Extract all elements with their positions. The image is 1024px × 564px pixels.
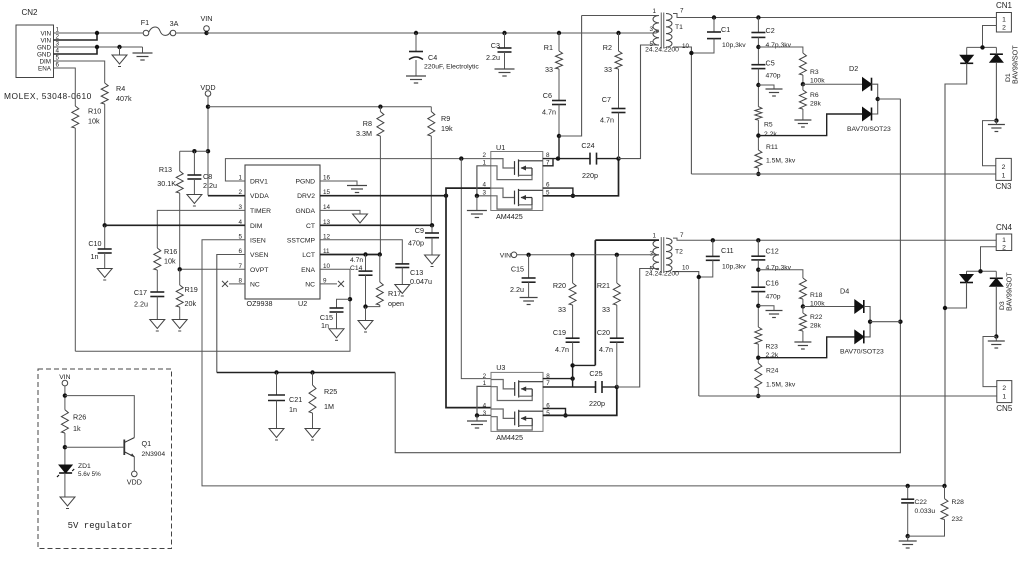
resistor R24 1.5M,3kv bbox=[755, 363, 762, 388]
svg-text:4.7p,3kv: 4.7p,3kv bbox=[766, 265, 792, 272]
svg-text:10k: 10k bbox=[164, 257, 176, 266]
svg-text:1.5M, 3kv: 1.5M, 3kv bbox=[766, 382, 796, 389]
svg-text:2: 2 bbox=[482, 152, 486, 159]
node VIN (second input terminal) bbox=[511, 252, 517, 258]
capacitor C11 10p,3kv bbox=[711, 238, 715, 242]
svg-text:Q1: Q1 bbox=[142, 439, 152, 448]
resistor R1 33 bbox=[557, 31, 561, 35]
svg-text:C20: C20 bbox=[597, 328, 610, 337]
wire VSEN pin6 (to voltage feedback) bbox=[217, 255, 245, 373]
svg-text:AM4425: AM4425 bbox=[496, 433, 523, 442]
svg-text:F1: F1 bbox=[141, 18, 149, 27]
wire CN2 pin3/pin4 GND bbox=[54, 46, 143, 48]
svg-text:33: 33 bbox=[604, 65, 612, 74]
svg-text:10k: 10k bbox=[88, 117, 100, 126]
svg-text:1n: 1n bbox=[91, 252, 99, 261]
ground (triangle) CN2 GND bbox=[119, 47, 121, 55]
svg-text:20k: 20k bbox=[185, 299, 197, 308]
wire DRV1 net (pin1 to U1 pin2 / U3 pin2) bbox=[225, 159, 490, 181]
svg-text:10: 10 bbox=[323, 263, 331, 270]
svg-text:R9: R9 bbox=[441, 114, 450, 123]
svg-text:220p: 220p bbox=[582, 171, 598, 180]
svg-text:3: 3 bbox=[238, 204, 242, 211]
transformer T1 24.24.2200 bbox=[582, 8, 997, 175]
connector CN3 bbox=[983, 121, 997, 166]
capacitor C5 470p bbox=[751, 64, 765, 66]
wire U1 drain pins 6/5 jog bbox=[543, 188, 573, 196]
svg-text:R22: R22 bbox=[810, 314, 823, 321]
svg-text:1: 1 bbox=[1002, 237, 1006, 244]
svg-text:16: 16 bbox=[323, 175, 331, 182]
svg-text:ISEN: ISEN bbox=[250, 237, 266, 244]
zener diode ZD1 5.6v 5% bbox=[59, 465, 72, 473]
svg-text:3: 3 bbox=[56, 41, 60, 48]
svg-text:C10: C10 bbox=[88, 239, 101, 248]
svg-text:DRV1: DRV1 bbox=[250, 179, 268, 186]
svg-text:GND: GND bbox=[37, 45, 51, 52]
wire ENA pin10 bbox=[75, 269, 350, 351]
wire VIN rail bbox=[207, 32, 660, 34]
svg-text:33: 33 bbox=[558, 305, 566, 314]
svg-text:R21: R21 bbox=[597, 281, 610, 290]
connector CN2 bbox=[4, 8, 92, 101]
svg-text:1: 1 bbox=[56, 27, 60, 34]
wire CT pin13 + capacitor C9 470p bbox=[320, 224, 432, 226]
svg-text:0.047u: 0.047u bbox=[410, 277, 432, 286]
svg-text:30.1K: 30.1K bbox=[157, 179, 176, 188]
svg-text:R28: R28 bbox=[952, 499, 965, 506]
svg-text:2: 2 bbox=[1002, 164, 1006, 171]
svg-text:CN3: CN3 bbox=[995, 182, 1012, 191]
capacitor C21 1n bbox=[276, 373, 278, 396]
svg-text:R17: R17 bbox=[388, 289, 401, 298]
svg-text:BAV70/SOT23: BAV70/SOT23 bbox=[847, 126, 891, 133]
resistor R10 10k bbox=[72, 106, 79, 128]
svg-text:14: 14 bbox=[323, 204, 331, 211]
ground (earth) C22/R28 bbox=[907, 536, 909, 541]
wire U3 drain pins 6/5 jog bbox=[543, 409, 566, 416]
wire SSTCMP pin12 + capacitor C13 0.047u bbox=[320, 240, 402, 264]
svg-text:R13: R13 bbox=[159, 165, 172, 174]
resistor R25 1M bbox=[312, 373, 314, 386]
capacitor C4 220uF electrolytic bbox=[414, 31, 418, 35]
svg-text:ZD1: ZD1 bbox=[78, 463, 91, 470]
capacitor C3 2.2u bbox=[502, 31, 506, 35]
wire ISEN pin5 (to current sense) bbox=[202, 240, 945, 486]
svg-text:open: open bbox=[388, 299, 404, 308]
svg-text:1: 1 bbox=[1002, 173, 1006, 180]
svg-text:ENA: ENA bbox=[38, 66, 52, 73]
node VIN (regulator input) bbox=[62, 380, 68, 386]
svg-text:470p: 470p bbox=[408, 239, 424, 248]
svg-text:220uF, Electrolytic: 220uF, Electrolytic bbox=[424, 64, 479, 71]
svg-text:R1: R1 bbox=[544, 43, 553, 52]
svg-text:7: 7 bbox=[238, 263, 242, 270]
svg-text:R5: R5 bbox=[764, 122, 773, 129]
wire C24 node to T1 pin5 riser bbox=[619, 45, 658, 159]
svg-text:CT: CT bbox=[306, 223, 315, 230]
svg-text:C8: C8 bbox=[203, 172, 212, 181]
svg-text:AM4425: AM4425 bbox=[496, 212, 523, 221]
svg-text:GNDA: GNDA bbox=[295, 208, 315, 215]
capacitor C24 220p bbox=[589, 153, 591, 165]
pin 9 NC stub bbox=[320, 283, 337, 285]
svg-text:4.7n: 4.7n bbox=[542, 108, 556, 117]
svg-text:3: 3 bbox=[483, 410, 487, 417]
svg-text:DRV2: DRV2 bbox=[297, 193, 315, 200]
svg-text:2.2k: 2.2k bbox=[764, 131, 777, 138]
wire DIM pin4 bbox=[105, 224, 245, 226]
svg-text:1M: 1M bbox=[324, 402, 334, 411]
op-amp U1 ... actually controller IC U2 OZ9938 bbox=[238, 165, 330, 308]
svg-text:4.7p,3kv: 4.7p,3kv bbox=[766, 42, 792, 49]
svg-text:CN5: CN5 bbox=[996, 404, 1013, 413]
svg-text:5V regulator: 5V regulator bbox=[68, 521, 133, 531]
resistor R6 28k bbox=[802, 84, 804, 90]
resistor R11 1.5M,3kv bbox=[755, 150, 762, 168]
svg-text:NC: NC bbox=[250, 281, 260, 288]
svg-text:R10: R10 bbox=[88, 107, 101, 116]
diode D3 BAV99/SOT bbox=[943, 247, 1014, 339]
svg-text:3A: 3A bbox=[170, 19, 179, 28]
node VDD (terminal) bbox=[205, 91, 211, 97]
svg-text:C3: C3 bbox=[491, 41, 500, 50]
ground (earth) D3 bbox=[995, 337, 997, 342]
svg-text:R6: R6 bbox=[810, 92, 819, 99]
ground (earth) at C5/R5 tap bbox=[758, 85, 774, 89]
svg-text:2.2u: 2.2u bbox=[510, 285, 524, 294]
svg-text:U2: U2 bbox=[298, 299, 307, 308]
svg-text:7: 7 bbox=[546, 380, 550, 387]
resistor R23 2.2k bbox=[755, 327, 762, 344]
svg-text:LCT: LCT bbox=[302, 252, 315, 259]
svg-text:R8: R8 bbox=[363, 119, 372, 128]
svg-text:4: 4 bbox=[483, 403, 487, 410]
svg-text:19k: 19k bbox=[441, 124, 453, 133]
svg-text:28k: 28k bbox=[810, 101, 822, 108]
wire U1 source ground bbox=[477, 166, 491, 196]
svg-text:C19: C19 bbox=[553, 328, 566, 337]
wire CN2 pin1/pin2 VIN to fuse bbox=[54, 32, 144, 34]
svg-text:VDD: VDD bbox=[127, 478, 142, 487]
svg-text:VDDA: VDDA bbox=[250, 193, 269, 200]
svg-text:10: 10 bbox=[682, 43, 690, 50]
capacitor C22 0.033u bbox=[906, 484, 910, 488]
svg-text:BAV99/SOT: BAV99/SOT bbox=[1005, 272, 1014, 311]
svg-text:DIM: DIM bbox=[39, 59, 51, 66]
svg-text:R2: R2 bbox=[603, 43, 612, 52]
svg-text:C16: C16 bbox=[766, 279, 779, 288]
svg-text:T1: T1 bbox=[675, 24, 683, 31]
svg-text:1k: 1k bbox=[73, 424, 81, 433]
svg-text:C17: C17 bbox=[134, 288, 147, 297]
svg-text:C11: C11 bbox=[721, 246, 734, 255]
ground (earth) CN2 GND bbox=[142, 47, 144, 53]
svg-text:12: 12 bbox=[323, 233, 331, 240]
svg-text:407k: 407k bbox=[116, 94, 132, 103]
capacitor C15 1n (ENA) bbox=[337, 299, 351, 308]
svg-text:C6: C6 bbox=[543, 91, 552, 100]
svg-text:U1: U1 bbox=[496, 143, 505, 152]
capacitor C10 1n bbox=[103, 223, 107, 227]
svg-text:R3: R3 bbox=[810, 69, 819, 76]
svg-text:C1: C1 bbox=[721, 25, 730, 34]
svg-text:VIN: VIN bbox=[500, 253, 511, 260]
svg-text:1n: 1n bbox=[321, 321, 329, 330]
wire U3 source ground bbox=[477, 386, 491, 415]
svg-text:0.033u: 0.033u bbox=[915, 508, 936, 515]
resistor R20 33 bbox=[572, 255, 574, 283]
svg-text:T2: T2 bbox=[675, 249, 683, 256]
svg-text:CN4: CN4 bbox=[996, 223, 1013, 232]
capacitor C16 470p bbox=[751, 286, 765, 288]
resistor R28 232 bbox=[942, 484, 946, 488]
capacitor C1 10p,3kv bbox=[712, 15, 716, 19]
svg-text:VIN: VIN bbox=[201, 14, 213, 23]
svg-text:C7: C7 bbox=[602, 95, 611, 104]
wire U1 drain pins 8/7 jog bbox=[543, 159, 553, 166]
svg-text:TIMER: TIMER bbox=[250, 208, 271, 215]
ground GNDA pin14 bbox=[320, 210, 360, 214]
svg-text:2: 2 bbox=[1002, 385, 1006, 392]
svg-text:220p: 220p bbox=[589, 399, 605, 408]
resistor R3 100k bbox=[758, 47, 803, 53]
connector CN1 bbox=[996, 13, 1011, 33]
svg-text:232: 232 bbox=[952, 516, 964, 523]
svg-text:C13: C13 bbox=[410, 268, 423, 277]
svg-text:C9: C9 bbox=[415, 226, 424, 235]
svg-text:1: 1 bbox=[652, 233, 656, 240]
wire CN2 pin6 ENA bbox=[54, 68, 76, 106]
svg-text:2.2u: 2.2u bbox=[134, 300, 148, 309]
ground PGND pin16 bbox=[320, 181, 357, 186]
svg-text:PGND: PGND bbox=[295, 179, 315, 186]
transistor U1 AM4425 dual MOSFET bbox=[482, 143, 550, 221]
svg-text:7: 7 bbox=[680, 8, 684, 15]
svg-text:6: 6 bbox=[56, 62, 60, 69]
wire C25 node to T2 pin5 riser bbox=[617, 269, 657, 388]
pin 8 NC stub bbox=[229, 283, 245, 285]
capacitor C25 220p bbox=[595, 381, 597, 393]
svg-text:10: 10 bbox=[682, 265, 690, 272]
capacitor C12 4.7p,3kv bbox=[756, 238, 760, 242]
wire secondary return rail (T1 pin10 to CN3 pin1) bbox=[691, 173, 995, 175]
svg-text:C4: C4 bbox=[428, 53, 437, 62]
svg-text:5: 5 bbox=[56, 55, 60, 62]
resistor R9 19k bbox=[428, 112, 435, 137]
svg-text:33: 33 bbox=[545, 65, 553, 74]
wire OVPT pin7 bbox=[180, 268, 245, 270]
svg-text:2: 2 bbox=[483, 373, 487, 380]
svg-text:SSTCMP: SSTCMP bbox=[287, 237, 316, 244]
capacitor C7 4.7n bbox=[612, 108, 626, 110]
svg-text:4.7n: 4.7n bbox=[599, 345, 613, 354]
resistor R22 28k bbox=[802, 307, 804, 314]
node VIN (input terminal) bbox=[176, 32, 207, 34]
resistor R17 open bbox=[379, 255, 381, 283]
svg-text:470p: 470p bbox=[766, 294, 781, 301]
svg-text:D4: D4 bbox=[840, 287, 849, 296]
svg-text:8: 8 bbox=[238, 277, 242, 284]
svg-text:1: 1 bbox=[1002, 16, 1006, 23]
svg-text:R4: R4 bbox=[116, 84, 125, 93]
resistor R8 3.3M bbox=[377, 112, 384, 137]
svg-text:ENA: ENA bbox=[301, 267, 315, 274]
capacitor C8 2.2u bbox=[193, 151, 195, 175]
capacitor C19 4.7n bbox=[566, 337, 580, 339]
svg-text:1n: 1n bbox=[289, 405, 297, 414]
svg-text:C2: C2 bbox=[766, 26, 775, 35]
svg-text:GND: GND bbox=[37, 52, 51, 59]
capacitor C14 4.7n bbox=[365, 255, 367, 272]
wire LCT pin11 bbox=[320, 254, 380, 256]
svg-text:C14: C14 bbox=[350, 265, 363, 272]
svg-text:C25: C25 bbox=[589, 369, 602, 378]
svg-text:R19: R19 bbox=[185, 285, 198, 294]
svg-text:OVPT: OVPT bbox=[250, 267, 268, 274]
svg-text:BAV99/SOT: BAV99/SOT bbox=[1011, 45, 1020, 84]
capacitor C20 4.7n bbox=[610, 337, 624, 339]
svg-text:C24: C24 bbox=[581, 141, 594, 150]
svg-text:3: 3 bbox=[649, 26, 653, 33]
svg-text:7: 7 bbox=[680, 232, 684, 239]
resistor R16 10k bbox=[154, 248, 161, 270]
ground (earth) at C16/R23 tap bbox=[758, 306, 774, 311]
diode D1 BAV99/SOT bbox=[945, 26, 1020, 486]
svg-text:R11: R11 bbox=[766, 144, 778, 151]
svg-text:VIN: VIN bbox=[41, 38, 52, 45]
svg-text:4.7n: 4.7n bbox=[555, 345, 569, 354]
wire TIMER pin3 bbox=[157, 210, 245, 248]
svg-text:3: 3 bbox=[649, 251, 653, 258]
svg-text:C12: C12 bbox=[766, 247, 779, 256]
svg-text:2N3904: 2N3904 bbox=[142, 451, 166, 458]
transistor Q1 2N3904 bbox=[65, 438, 165, 472]
resistor R5 2.2k bbox=[755, 107, 762, 120]
svg-text:5.6v 5%: 5.6v 5% bbox=[78, 471, 101, 478]
svg-text:NC: NC bbox=[305, 281, 315, 288]
svg-text:10p,3kv: 10p,3kv bbox=[722, 42, 746, 49]
capacitor C15 2.2u (input) bbox=[528, 255, 530, 278]
svg-text:470p: 470p bbox=[766, 73, 781, 80]
svg-text:U3: U3 bbox=[496, 363, 505, 372]
svg-text:VIN: VIN bbox=[59, 374, 70, 381]
svg-text:C5: C5 bbox=[766, 59, 775, 68]
svg-text:VSEN: VSEN bbox=[250, 252, 269, 259]
capacitor C6 4.7n bbox=[552, 100, 566, 102]
node A: R1/C6 to U1 pin8 and T1 pin1 bbox=[557, 134, 561, 138]
resistor R13 30.1k bbox=[179, 151, 181, 171]
wire U3 drain pins 8/7 bbox=[543, 378, 573, 380]
svg-text:VIN: VIN bbox=[41, 31, 52, 38]
svg-text:2.2u: 2.2u bbox=[203, 181, 217, 190]
svg-text:R20: R20 bbox=[553, 281, 566, 290]
resistor R4 407k bbox=[101, 83, 108, 104]
svg-text:2: 2 bbox=[1002, 244, 1006, 251]
svg-text:MOLEX, 53048-0610: MOLEX, 53048-0610 bbox=[4, 91, 92, 101]
svg-text:VDD: VDD bbox=[200, 83, 215, 92]
5V regulator block (dashed box) bbox=[38, 369, 172, 549]
transformer T2 24.24.2200 bbox=[595, 232, 996, 396]
svg-text:24.24.2200: 24.24.2200 bbox=[645, 271, 679, 278]
svg-text:2.2u: 2.2u bbox=[486, 53, 500, 62]
connector CN5 bbox=[983, 337, 997, 387]
svg-text:4.7n: 4.7n bbox=[600, 116, 614, 125]
svg-text:R24: R24 bbox=[766, 368, 779, 375]
svg-text:R16: R16 bbox=[164, 247, 177, 256]
wire VDDA pin2 bbox=[208, 195, 245, 197]
svg-text:10p,3kv: 10p,3kv bbox=[722, 264, 746, 271]
svg-text:28k: 28k bbox=[810, 323, 822, 330]
svg-text:OZ9938: OZ9938 bbox=[247, 299, 273, 308]
svg-text:1.5M, 3kv: 1.5M, 3kv bbox=[766, 158, 796, 165]
wire CN2 pin5 DIM bbox=[54, 61, 105, 83]
svg-text:CN1: CN1 bbox=[996, 1, 1013, 10]
svg-text:4.7n: 4.7n bbox=[350, 257, 363, 264]
connector CN4 bbox=[996, 234, 1012, 251]
resistor R21 33 bbox=[616, 255, 618, 283]
resistor R26 1k bbox=[61, 410, 68, 433]
diode D4 BAV70/SOT23 bbox=[758, 287, 900, 358]
svg-text:5: 5 bbox=[238, 233, 242, 240]
svg-text:3.3M: 3.3M bbox=[356, 129, 372, 138]
svg-text:CN2: CN2 bbox=[21, 8, 38, 17]
svg-text:1: 1 bbox=[652, 8, 656, 15]
svg-text:24.24.2200: 24.24.2200 bbox=[645, 47, 679, 54]
svg-text:D2: D2 bbox=[849, 64, 858, 73]
svg-text:1: 1 bbox=[238, 175, 242, 182]
svg-text:4: 4 bbox=[482, 182, 486, 189]
diode D2 BAV70/SOT23 bbox=[758, 64, 900, 136]
capacitor C17 2.2u bbox=[156, 270, 158, 292]
svg-text:100k: 100k bbox=[810, 78, 825, 85]
wire secondary return rail (T2 pin10 to CN5 pin1) bbox=[699, 395, 997, 397]
fuse F1 3A bbox=[141, 18, 179, 36]
svg-text:C22: C22 bbox=[915, 499, 928, 506]
capacitor C2 4.7p,3kv bbox=[756, 15, 760, 19]
svg-text:2: 2 bbox=[1002, 24, 1006, 31]
svg-text:R18: R18 bbox=[810, 292, 823, 299]
transistor U3 AM4425 dual MOSFET bbox=[483, 363, 551, 442]
resistor R18 100k bbox=[758, 270, 803, 278]
svg-text:R25: R25 bbox=[324, 387, 337, 396]
wire VDD rail bbox=[208, 106, 431, 108]
svg-text:DIM: DIM bbox=[250, 223, 263, 230]
svg-text:R26: R26 bbox=[73, 413, 86, 422]
svg-text:C15: C15 bbox=[511, 265, 524, 274]
svg-text:1: 1 bbox=[1002, 394, 1006, 401]
node VDD (regulator output) bbox=[132, 471, 138, 477]
ground (earth) D1 bbox=[995, 121, 997, 125]
resistor R19 20k bbox=[179, 269, 181, 285]
svg-text:BAV70/SOT23: BAV70/SOT23 bbox=[840, 349, 884, 356]
svg-text:R23: R23 bbox=[766, 344, 779, 351]
svg-text:9: 9 bbox=[323, 277, 327, 284]
svg-text:C21: C21 bbox=[289, 395, 302, 404]
resistor R2 33 bbox=[616, 31, 620, 35]
wire DRV2 net (pin15 to U1 pin4 / U3 pin4) bbox=[320, 195, 446, 197]
svg-text:33: 33 bbox=[602, 305, 610, 314]
